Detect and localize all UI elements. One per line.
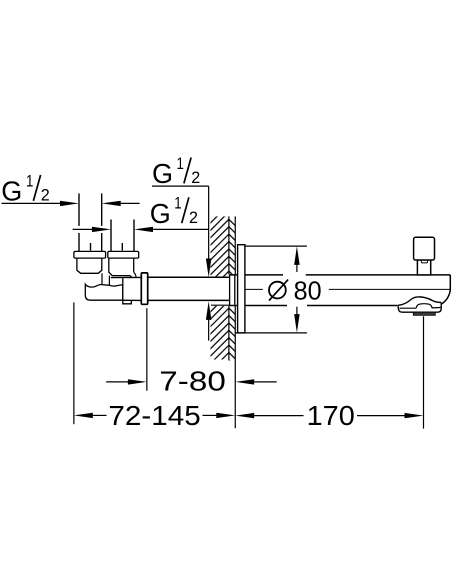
72-145 extension line left: [73, 302, 75, 424]
aerator ring: [413, 312, 435, 315]
wall inner line: [228, 216, 230, 360]
dia 80 text: [269, 275, 322, 305]
arrow down at pipe top: [206, 259, 212, 278]
svg-text:2: 2: [191, 168, 200, 187]
svg-text:1: 1: [174, 194, 181, 213]
left inlet pipe: [79, 193, 102, 251]
wall tile strip B (\ diagonals): [229, 219, 235, 366]
G1/2 label upper right: [152, 154, 209, 260]
dia 80 dimension line + arrows: [294, 246, 300, 333]
right union nut: [109, 258, 136, 277]
spout outlet beak: [398, 297, 442, 312]
body neck lines: [102, 273, 109, 285]
tube end verticals at wall: [230, 275, 235, 305]
wall surface line / dimension extension: [234, 216, 236, 428]
svg-text:80: 80: [294, 275, 322, 305]
170 extension line right: [423, 316, 425, 428]
svg-text:1: 1: [177, 154, 184, 173]
wall hatch region A (/ diagonals): [196, 186, 240, 408]
diverter knob: [414, 237, 435, 275]
tube bottom line: [229, 305, 398, 307]
svg-text:G: G: [150, 198, 171, 229]
spout tube body: [229, 275, 450, 306]
dia 80 extension top: [245, 245, 307, 247]
arrow right at left pipe: [60, 201, 79, 206]
supply pipe through wall: [148, 277, 230, 300]
svg-text:G: G: [152, 158, 173, 189]
arrow left at right pipe right wall: [134, 227, 153, 232]
7-80 dimension: [106, 366, 277, 397]
nipple bottom edge in wall: [211, 304, 229, 306]
7-80 extension line left: [146, 308, 148, 391]
svg-text:G: G: [1, 176, 22, 207]
aerator mouse: [416, 304, 432, 309]
G1/2 label lower right: [150, 194, 209, 230]
svg-text:170: 170: [307, 400, 355, 431]
escutcheon: [238, 245, 245, 333]
svg-text:2: 2: [41, 186, 50, 205]
G1/2 label top-left: [1, 171, 61, 206]
tube top line: [229, 274, 450, 276]
170 dimension: [235, 400, 423, 431]
svg-text:2: 2: [189, 208, 198, 227]
dia 80 extension bottom: [235, 332, 307, 334]
tube right end: [441, 275, 450, 304]
left union nut: [77, 258, 102, 273]
svg-text:7-80: 7-80: [159, 366, 226, 397]
svg-text:72-145: 72-145: [108, 400, 200, 431]
elbow body: [85, 284, 123, 300]
fitting: mounting plate left: [74, 251, 106, 258]
down lobe: [123, 277, 132, 304]
arrow right at right pipe left wall: [92, 227, 111, 232]
72-145 dimension: [74, 400, 235, 431]
arrow up at pipe bottom: [206, 301, 212, 320]
beak inner lip lines: [400, 307, 441, 310]
right inlet pipe: [111, 220, 134, 252]
fitting: mounting plate right: [108, 251, 139, 258]
svg-text:1: 1: [26, 171, 33, 190]
pipe in front of lobe: [111, 276, 142, 278]
center line: [246, 288, 450, 290]
wall flange of fitting: [141, 273, 147, 304]
arrow left at left pipe right wall: [102, 201, 121, 206]
